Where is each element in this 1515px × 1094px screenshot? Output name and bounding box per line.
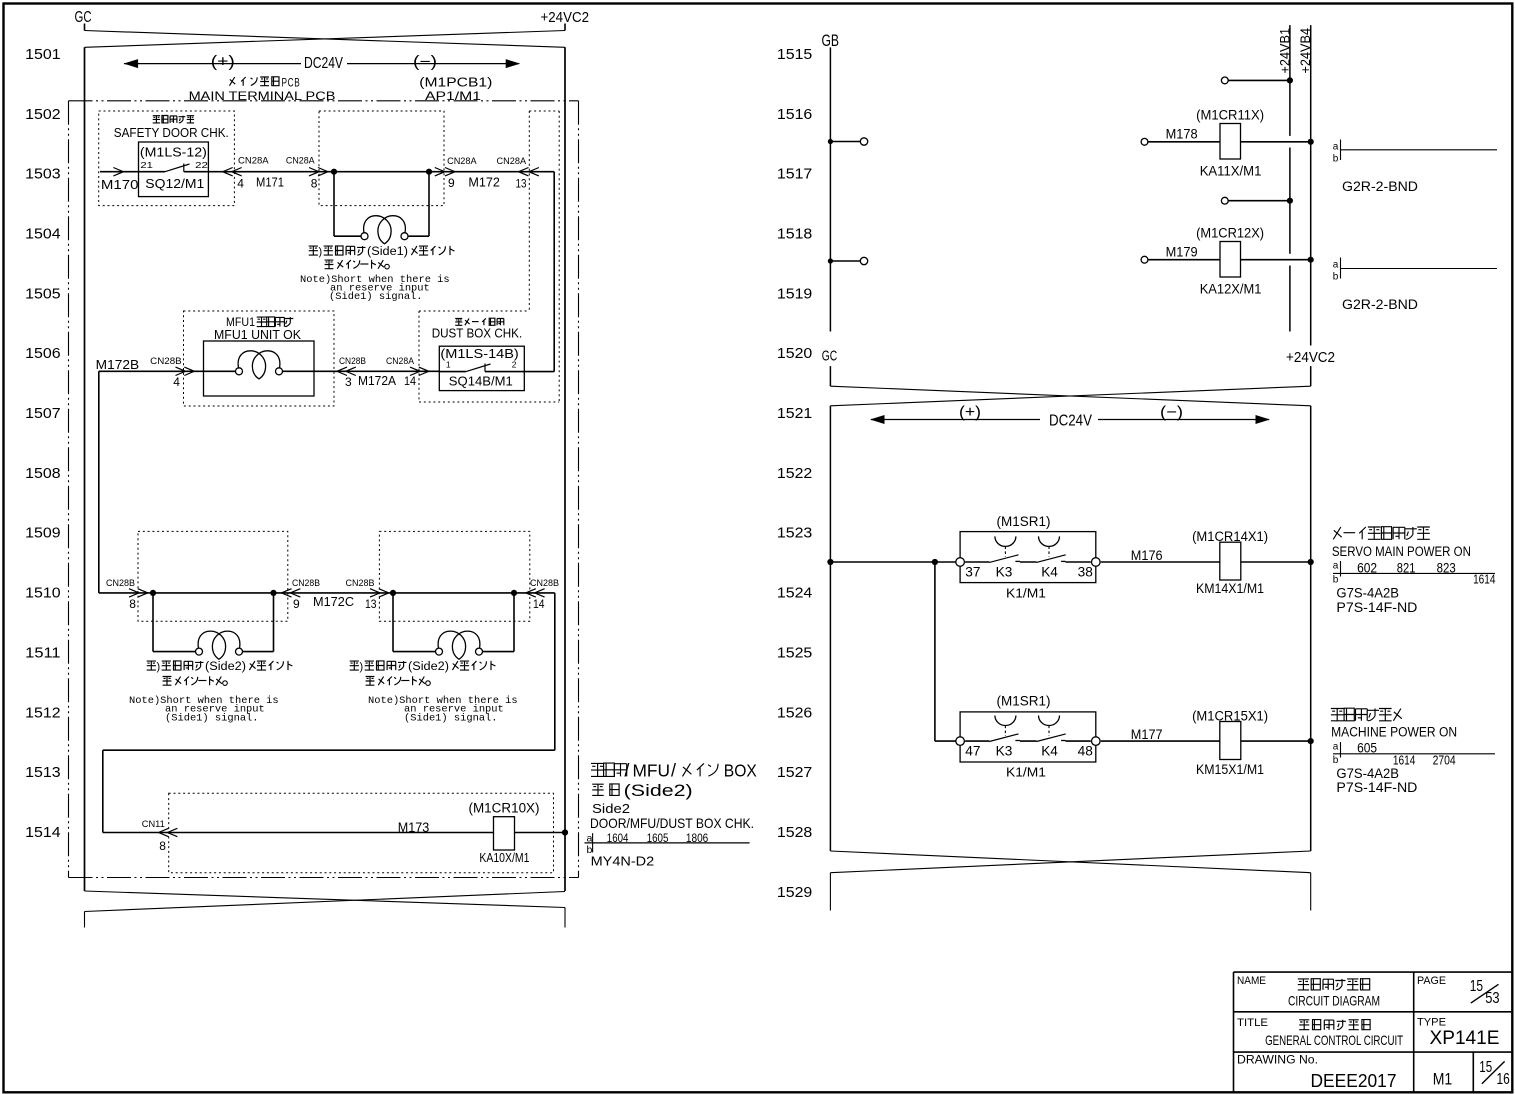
svg-text:(Side1) signal.: (Side1) signal. (165, 713, 259, 725)
node junction A2 (270, 590, 276, 596)
MFU1 connector loop box (204, 341, 315, 396)
svg-text:21: 21 (140, 160, 153, 170)
svg-text:a: a (1333, 142, 1339, 153)
svg-text:): ) (360, 661, 364, 673)
label +24VC2 bottom (1286, 350, 1335, 366)
node junction B2 (511, 590, 517, 596)
wire M172 (435, 156, 539, 190)
relay coil M1CR11X (KA11X/M1) (1141, 108, 1314, 179)
wire GC stub (84, 24, 86, 31)
svg-text:1522: 1522 (777, 465, 812, 482)
svg-text:KM15X1/M1: KM15X1/M1 (1196, 762, 1264, 777)
label MAIN TERMINAL PCB (189, 89, 336, 103)
label SAFETY DOOR CHK. (114, 126, 229, 140)
row 1514 dotted enclosure (169, 793, 554, 872)
svg-text:SQ14B/M1: SQ14B/M1 (449, 373, 513, 388)
svg-text:PAGE: PAGE (1417, 975, 1446, 987)
relay coil M1CR12X (KA12X/M1) (1141, 226, 1314, 297)
svg-text:M179: M179 (1166, 244, 1198, 259)
svg-text:1515: 1515 (777, 46, 812, 63)
svg-text:DOOR/MFU/DUST BOX CHK.: DOOR/MFU/DUST BOX CHK. (590, 815, 754, 831)
svg-text:+24VC2: +24VC2 (1286, 350, 1335, 366)
svg-text:(M1PCB1): (M1PCB1) (419, 74, 492, 89)
PCB boundary chain-line box (69, 101, 579, 878)
title block M1 cell (1433, 1070, 1453, 1089)
svg-text:(Side1): (Side1) (367, 246, 408, 258)
svg-text:P7S-14F-ND: P7S-14F-ND (1336, 600, 1417, 615)
label door/MFU/dust box check (Japanese) (591, 761, 757, 781)
svg-text:G2R-2-BND: G2R-2-BND (1342, 297, 1418, 312)
svg-text:CN28B: CN28B (346, 578, 375, 589)
bus label +24VB1 (rotated) (1277, 28, 1292, 74)
svg-text:1511: 1511 (25, 644, 60, 661)
label AP1/M1 (425, 89, 481, 103)
svg-text:(M1CR12X): (M1CR12X) (1196, 226, 1264, 241)
node junction on +24VC2 rail (562, 829, 568, 835)
svg-text:MY4N-D2: MY4N-D2 (591, 855, 655, 869)
wire M170 (100, 168, 139, 193)
svg-text:CN11: CN11 (142, 819, 165, 830)
svg-text:DUST BOX CHK.: DUST BOX CHK. (432, 327, 523, 341)
title block sheet 15/16 cell (1479, 1059, 1510, 1088)
GB tap 2 with terminal (828, 257, 868, 264)
svg-text:15: 15 (1470, 978, 1483, 995)
node junction A1 (150, 590, 156, 596)
svg-text:M172C: M172C (313, 595, 354, 609)
label MFU1 unit OK (Japanese) (226, 315, 293, 329)
svg-text:M172: M172 (468, 176, 500, 190)
cable duct dotted column CN28A (529, 111, 559, 402)
wire +24VC2 stub (564, 24, 566, 31)
label Side2 small (592, 801, 630, 816)
title block frame (1234, 972, 1513, 1092)
label P7S-14F-ND row1523 (1336, 600, 1417, 615)
svg-text:1508: 1508 (25, 465, 60, 482)
svg-text:DC24V: DC24V (1049, 413, 1093, 430)
svg-text:(−): (−) (1160, 404, 1183, 421)
wire M173 (103, 819, 494, 853)
label G7S-4A2B row1526 (1336, 766, 1399, 781)
bus rail +24VB4 (1310, 25, 1312, 345)
svg-text:GC: GC (822, 349, 837, 365)
node branch junction (932, 559, 938, 565)
jumper short plug Side2-B (393, 593, 514, 660)
wire rail to K1/M1 row1523 (827, 559, 960, 565)
svg-text:1512: 1512 (25, 704, 60, 721)
title block NAME cell (1237, 975, 1380, 1008)
limit switch SQ12/M1 (M1LS-12) (139, 142, 209, 197)
wire M171 (208, 156, 328, 191)
node GC top label (75, 9, 92, 26)
left bus rail GC (84, 47, 86, 891)
line number labels 1501-1514 (25, 46, 60, 841)
svg-text:CN28B: CN28B (106, 578, 135, 589)
svg-text:M170: M170 (101, 178, 139, 192)
label kakunin Side2 (Japanese) (592, 781, 693, 800)
svg-text:MFU1: MFU1 (226, 315, 255, 329)
svg-text:1519: 1519 (777, 285, 812, 302)
svg-text:TYPE: TYPE (1417, 1016, 1446, 1028)
svg-text:(Side1) signal.: (Side1) signal. (329, 291, 423, 303)
title block TITLE cell (1237, 1017, 1403, 1048)
svg-text:1503: 1503 (25, 166, 60, 183)
DC24V polarity arrow lower (870, 404, 1270, 430)
ladder continuation break top (85, 31, 566, 48)
lower right bus rail (1310, 406, 1312, 851)
svg-text:2: 2 (512, 360, 517, 370)
dust box check dotted enclosure (419, 311, 559, 402)
note text Side1 (Japanese) (309, 246, 455, 269)
svg-text:a: a (1333, 260, 1339, 271)
wire row 1510 horizontal (99, 592, 555, 594)
svg-text:48: 48 (1078, 743, 1093, 759)
note text Side2-B (English) (368, 695, 518, 725)
svg-text:G7S-4A2B: G7S-4A2B (1336, 766, 1399, 781)
label servo main power on (Japanese) (1333, 527, 1430, 540)
cable arrow CN28B pin8 (106, 578, 148, 611)
wire M172B (96, 356, 204, 389)
node GB label (822, 32, 840, 50)
svg-text:DEEE2017: DEEE2017 (1311, 1070, 1397, 1091)
svg-text:9: 9 (293, 597, 300, 611)
svg-text:b: b (1333, 755, 1339, 766)
relay coil M1CR10X (KA10X/M1) (469, 801, 540, 866)
lower left bus rail (829, 406, 831, 851)
svg-text:SQ12/M1: SQ12/M1 (145, 176, 204, 191)
svg-text:(M1CR10X): (M1CR10X) (469, 801, 540, 816)
svg-text:1527: 1527 (777, 764, 812, 781)
svg-text:GC: GC (75, 9, 92, 26)
safety relay contact block K1/M1 47-48 (M1SR1) (956, 694, 1100, 780)
svg-text:(M1LS-12): (M1LS-12) (140, 145, 207, 159)
svg-text:K1/M1: K1/M1 (1006, 765, 1046, 780)
svg-text:13: 13 (365, 597, 377, 611)
svg-text:(M1SR1): (M1SR1) (997, 514, 1051, 529)
svg-text:8: 8 (311, 177, 318, 191)
svg-text:13: 13 (516, 176, 527, 190)
svg-text:1513: 1513 (25, 764, 60, 781)
lower ladder continuation break top (830, 386, 1310, 406)
label MFU1 UNIT OK (214, 328, 302, 342)
svg-text:(Side2): (Side2) (205, 661, 246, 673)
svg-text:14: 14 (404, 374, 416, 388)
relay coil M1CR15X1 (KM15X1/M1) (1192, 708, 1314, 777)
safety relay contact block K1/M1 37-38 (M1SR1) (956, 514, 1100, 601)
svg-text:605: 605 (1357, 740, 1377, 756)
safety door check dotted enclosure (99, 111, 235, 206)
svg-text:M177: M177 (1131, 726, 1163, 742)
svg-text:a: a (1333, 561, 1339, 572)
svg-text:GB: GB (822, 32, 840, 50)
+24VC2 rail stub (1310, 366, 1312, 386)
note text Side2-B (Japanese) (350, 661, 496, 685)
wire drop right side to M173 (103, 593, 555, 833)
svg-text:GENERAL CONTROL CIRCUIT: GENERAL CONTROL CIRCUIT (1265, 1032, 1403, 1048)
svg-text:M172A: M172A (358, 374, 397, 388)
svg-text:CN28B: CN28B (150, 356, 182, 367)
svg-text:G2R-2-BND: G2R-2-BND (1342, 179, 1418, 194)
svg-text:M176: M176 (1131, 547, 1163, 563)
svg-text:1524: 1524 (777, 585, 812, 602)
svg-text:K4: K4 (1041, 564, 1058, 580)
svg-text:MFU: MFU (633, 761, 671, 781)
node +24VC2 top label (541, 9, 590, 26)
note text Side1 (English) (300, 274, 450, 303)
svg-text:SAFETY DOOR CHK.: SAFETY DOOR CHK. (114, 126, 229, 140)
svg-text:14: 14 (533, 597, 545, 611)
svg-text:CN28B: CN28B (339, 356, 366, 367)
label DUST BOX CHK. (432, 327, 523, 341)
svg-text:1528: 1528 (777, 824, 812, 841)
wire M172C (282, 578, 389, 611)
svg-text:(M1CR11X): (M1CR11X) (1196, 108, 1264, 123)
lower ladder continuation break bottom (830, 851, 1310, 911)
reserve input Side1 dotted enclosure (319, 111, 444, 206)
svg-text:): ) (319, 246, 323, 258)
tap terminal to +24VB1 top (1221, 77, 1293, 84)
svg-text:1506: 1506 (25, 345, 60, 362)
svg-text:1: 1 (446, 360, 451, 370)
svg-text:1529: 1529 (777, 884, 812, 901)
svg-text:8: 8 (159, 839, 166, 853)
svg-text:1518: 1518 (777, 225, 812, 242)
GB bus rail (829, 47, 831, 331)
svg-text:53: 53 (1485, 990, 1499, 1007)
svg-text:(Side1) signal.: (Side1) signal. (404, 713, 498, 725)
svg-text:(M1LS-14B): (M1LS-14B) (440, 347, 518, 361)
svg-text:): ) (157, 661, 161, 673)
title block TYPE cell (1417, 1016, 1500, 1049)
label MY4N-D2 (591, 855, 655, 869)
svg-text:(M1SR1): (M1SR1) (997, 694, 1051, 709)
cable arrow CN28B pin14 (526, 578, 559, 611)
svg-text:38: 38 (1078, 564, 1093, 580)
svg-text:/: / (671, 761, 676, 781)
svg-text:9: 9 (448, 176, 455, 190)
GC rail stub (829, 366, 831, 386)
wire M172A (314, 356, 439, 389)
svg-text:(+): (+) (211, 54, 235, 71)
svg-text:CN28A: CN28A (238, 156, 269, 167)
label dust box check (Japanese) (455, 318, 504, 325)
label machine power on (Japanese) (1331, 708, 1402, 721)
wire M173 to right rail (515, 832, 566, 834)
svg-text:TITLE: TITLE (1237, 1017, 1268, 1029)
label MACHINE POWER ON (1331, 725, 1457, 740)
svg-text:1526: 1526 (777, 704, 812, 721)
svg-text:K3: K3 (996, 743, 1013, 759)
wire through Side1 enclosure (319, 171, 554, 173)
label main terminal PCB (Japanese) (230, 75, 301, 89)
svg-text:CN28A: CN28A (447, 156, 477, 167)
svg-text:1505: 1505 (25, 285, 60, 302)
wire branch vertical to row1526 (935, 562, 960, 741)
svg-text:1521: 1521 (777, 405, 812, 422)
svg-text:1509: 1509 (25, 525, 60, 542)
svg-text:M172B: M172B (96, 358, 139, 372)
svg-text:G7S-4A2B: G7S-4A2B (1336, 585, 1399, 600)
wire M177 (1101, 726, 1220, 742)
svg-text:KM14X1/M1: KM14X1/M1 (1196, 581, 1264, 596)
svg-text:1507: 1507 (25, 405, 60, 422)
Side2 dotted enclosure B (379, 531, 529, 621)
svg-text:CIRCUIT DIAGRAM: CIRCUIT DIAGRAM (1288, 992, 1380, 1008)
svg-text:P7S-14F-ND: P7S-14F-ND (1336, 780, 1417, 795)
svg-text:M171: M171 (256, 176, 284, 190)
Side2 dotted enclosure A (138, 531, 288, 621)
GB tap 1 with terminal (828, 138, 868, 145)
svg-text:CN28B: CN28B (530, 578, 559, 589)
svg-text:KA10X/M1: KA10X/M1 (479, 850, 529, 865)
wire M172 vertical drop (553, 172, 555, 372)
svg-text:Side2: Side2 (592, 801, 630, 816)
wire M172B vertical drop (98, 371, 100, 593)
limit switch SQ14B/M1 (M1LS-14B) (439, 346, 524, 390)
ladder continuation break bottom (85, 891, 566, 928)
svg-text:M173: M173 (398, 819, 430, 835)
svg-text:1525: 1525 (777, 644, 812, 661)
cross reference machine 605 (1333, 740, 1495, 768)
svg-text:47: 47 (965, 743, 980, 759)
wire M176 (1101, 547, 1220, 563)
svg-text:1501: 1501 (25, 46, 60, 63)
svg-text:PCB: PCB (282, 75, 301, 89)
svg-text:1520: 1520 (777, 345, 812, 362)
svg-text:CN28A: CN28A (497, 156, 527, 167)
bus label +24VB4 (rotated) (1298, 28, 1313, 74)
svg-text:+24VC2: +24VC2 (541, 9, 590, 26)
jumper short plug Side2-A (153, 593, 274, 660)
MFU1 unit dotted enclosure (184, 311, 335, 406)
svg-text:b: b (1333, 154, 1339, 165)
title block PAGE cell (1417, 975, 1500, 1007)
svg-text:(Side2): (Side2) (408, 661, 449, 673)
jumper short plug Side1 (334, 172, 429, 244)
svg-text:XP141E: XP141E (1430, 1028, 1500, 1049)
label SERVO MAIN POWER ON (1332, 544, 1471, 559)
note text Side2-A (English) (129, 695, 279, 725)
cross reference servo 602 821 823 (1333, 559, 1496, 586)
svg-text:1614: 1614 (1473, 572, 1495, 587)
label (M1PCB1) (419, 74, 492, 89)
svg-text:(Side2): (Side2) (624, 781, 693, 800)
node junction left (331, 169, 337, 175)
svg-text:DRAWING No.: DRAWING No. (1237, 1054, 1318, 1066)
bus rail +24VB1 (with crossover gaps) (1289, 25, 1291, 331)
node GC bottom label (822, 349, 837, 365)
label DOOR/MFU/DUST BOX CHK. (590, 815, 754, 831)
node junction right (426, 169, 432, 175)
terminal line G2R row1 (1333, 140, 1497, 194)
svg-text:1510: 1510 (25, 585, 60, 602)
svg-text:CN28A: CN28A (286, 156, 315, 167)
svg-text:2704: 2704 (1433, 753, 1456, 768)
svg-text:1504: 1504 (25, 225, 60, 242)
relay coil M1CR14X1 (KM14X1/M1) (1192, 529, 1314, 596)
svg-text:M1: M1 (1433, 1070, 1453, 1089)
svg-text:1523: 1523 (777, 525, 812, 542)
svg-text:BOX: BOX (724, 761, 757, 781)
svg-text:(−): (−) (413, 54, 437, 71)
svg-text:22: 22 (195, 160, 208, 170)
line number labels 1515-1529 (777, 46, 812, 901)
svg-text:1516: 1516 (777, 106, 812, 123)
svg-text:K3: K3 (996, 564, 1013, 580)
label P7S-14F-ND row1526 (1336, 780, 1417, 795)
svg-text:K4: K4 (1041, 743, 1058, 759)
svg-text:16: 16 (1497, 1071, 1510, 1088)
svg-text:NAME: NAME (1237, 975, 1266, 987)
tap terminal to +24VB1 mid (1221, 197, 1293, 204)
svg-text:M178: M178 (1166, 127, 1198, 142)
svg-text:b: b (1333, 575, 1339, 586)
cross reference line 1604 1605 1806 (585, 831, 750, 856)
svg-text:SERVO MAIN POWER ON: SERVO MAIN POWER ON (1332, 544, 1471, 559)
svg-text:KA12X/M1: KA12X/M1 (1200, 281, 1262, 296)
terminal line G2R row2 (1333, 258, 1497, 312)
svg-text:4: 4 (173, 375, 180, 389)
svg-text:37: 37 (965, 564, 980, 580)
svg-text:(+): (+) (959, 404, 981, 421)
svg-text:CN28A: CN28A (386, 356, 415, 367)
DC24V polarity arrow (124, 54, 521, 72)
label safety door check (Japanese) (153, 116, 194, 123)
svg-text:MFU1 UNIT OK: MFU1 UNIT OK (214, 328, 302, 342)
svg-text:b: b (1333, 272, 1339, 283)
svg-text:K1/M1: K1/M1 (1006, 585, 1046, 600)
svg-text:4: 4 (237, 177, 244, 191)
svg-text:CN28B: CN28B (292, 578, 320, 589)
svg-text:a: a (1333, 742, 1339, 753)
svg-text:1517: 1517 (777, 166, 812, 183)
right bus rail +24VC2 (564, 47, 566, 891)
svg-text:15: 15 (1479, 1059, 1492, 1076)
svg-text:8: 8 (129, 597, 136, 611)
label G7S-4A2B row1523 (1336, 585, 1399, 600)
svg-text:MACHINE POWER ON: MACHINE POWER ON (1331, 725, 1457, 740)
node junction B1 (390, 590, 396, 596)
svg-text:1514: 1514 (25, 824, 60, 841)
svg-text:/: / (624, 761, 629, 781)
note text Side2-A (Japanese) (147, 661, 293, 685)
wire SQ14B to drop (524, 371, 554, 373)
svg-text:1502: 1502 (25, 106, 60, 123)
svg-text:3: 3 (345, 375, 352, 389)
svg-text:DC24V: DC24V (304, 55, 344, 72)
title block DRAWING cell (1237, 1054, 1397, 1091)
svg-text:KA11X/M1: KA11X/M1 (1200, 164, 1262, 179)
